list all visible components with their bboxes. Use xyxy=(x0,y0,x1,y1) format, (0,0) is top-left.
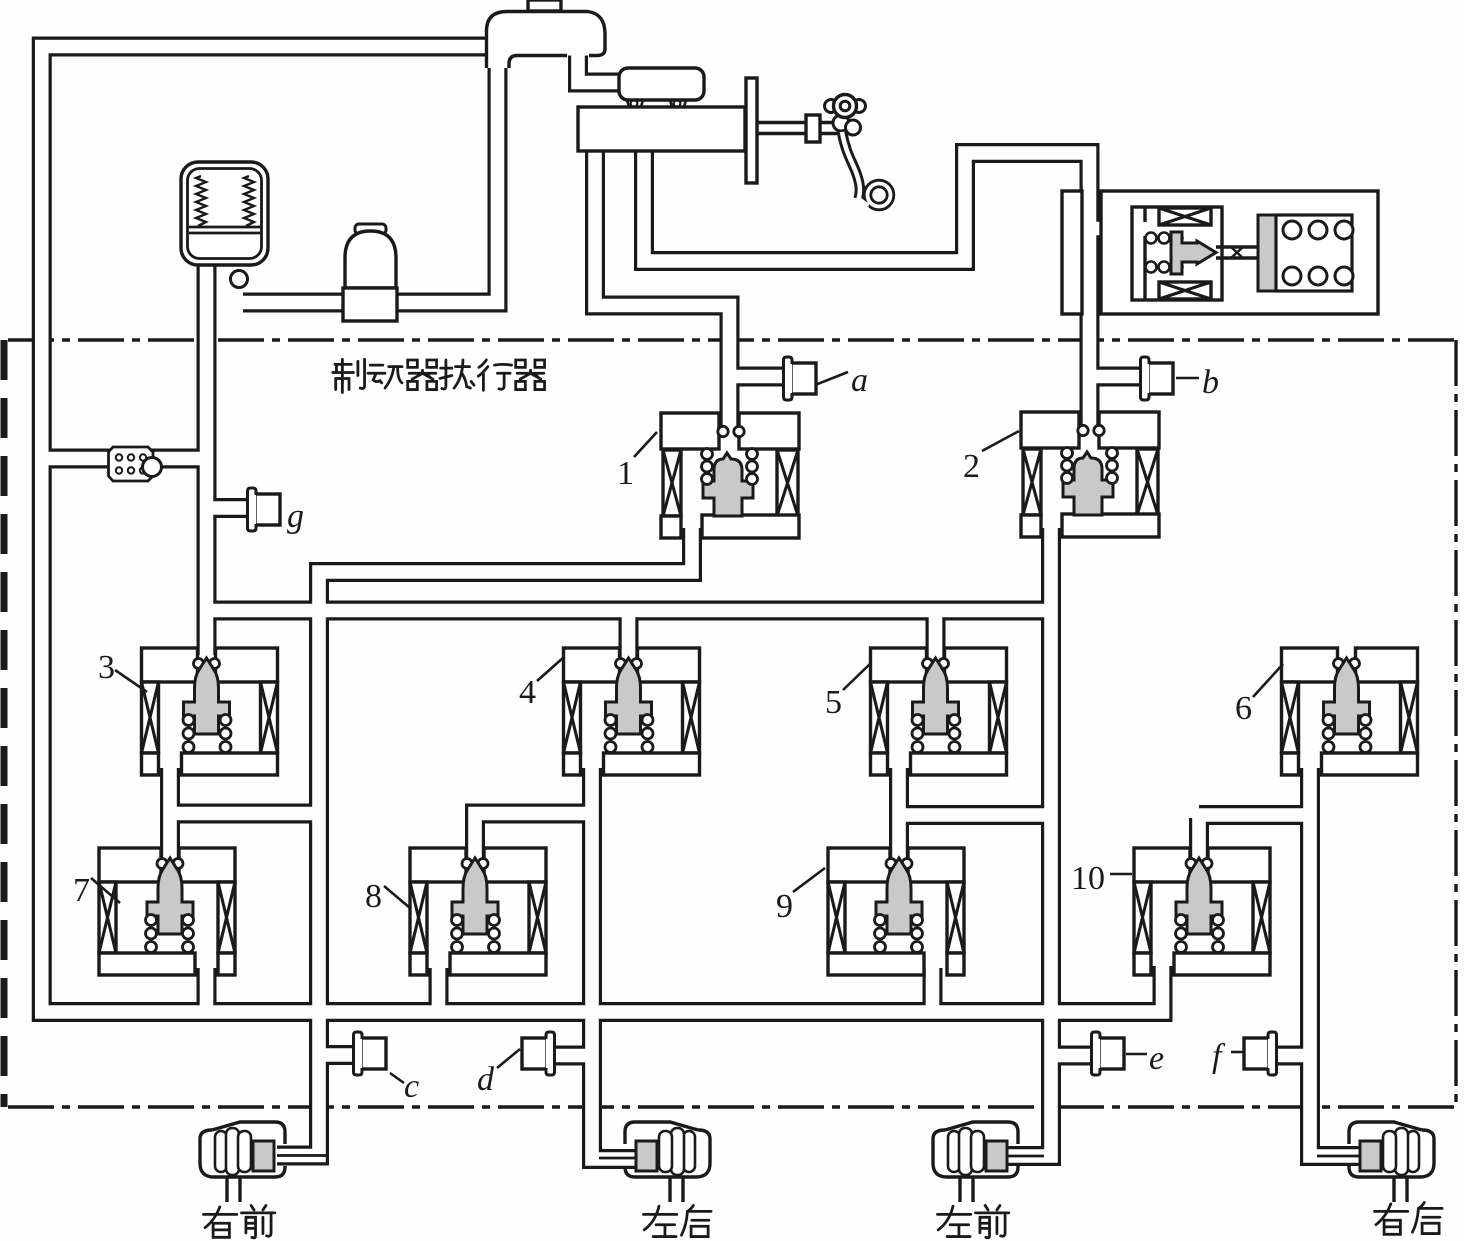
solenoid valve 10 xyxy=(1134,848,1270,975)
pipe: pressure switch line (casing) xyxy=(43,449,206,469)
port f xyxy=(1244,1032,1277,1075)
pipe: port c stub (casing) xyxy=(319,1045,354,1065)
booster piston ports xyxy=(1283,221,1301,239)
svg-text:e: e xyxy=(1149,1040,1164,1077)
booster rod with orifice xyxy=(1216,247,1259,258)
pipe: pump suction line and riser to elbow (casing) xyxy=(243,54,498,303)
pipe: accumulator drop line to valve 3 (casing) xyxy=(197,264,217,655)
filler elbow pipe at top xyxy=(487,12,606,69)
wheel cylinder right-rear 右后 xyxy=(1349,1122,1434,1177)
accumulator piston xyxy=(189,226,261,229)
text: wheel label right-rear xyxy=(1374,1204,1407,1234)
svg-text:9: 9 xyxy=(776,888,793,925)
pipe: valve 6 outlet branch to valve 10 inlet (casing) xyxy=(1199,815,1310,858)
booster solenoid shell xyxy=(1132,207,1222,300)
filler neck cap xyxy=(528,0,561,11)
svg-text:8: 8 xyxy=(365,878,382,915)
accumulator springs xyxy=(196,176,206,226)
svg-text:4: 4 xyxy=(519,674,536,711)
pressure switch xyxy=(109,447,154,481)
pipe: valve 4 outlet down to left-rear wheel (bore) xyxy=(592,768,636,1159)
pipe: reservoir feed from elbow (bore) xyxy=(578,52,623,83)
pipe: valve 9 outlet to return bus (casing) xyxy=(923,968,943,1012)
pipe: port d stub (bore) xyxy=(554,1049,592,1063)
pipe: valve 6 outlet down to right-rear wheel (casing) xyxy=(1310,768,1360,1156)
pipe: distribution bus from accumulator line (casing) xyxy=(207,601,1052,621)
pipe: valve 1 outlet bus down to right-front wheel (casing) xyxy=(277,528,692,1156)
pipe: inlet into booster box solenoid (casing) xyxy=(1090,219,1141,239)
wheel cylinder left-rear piston and bellows xyxy=(636,1128,695,1202)
pipe: branch to valve 5 outlet / valve 9 inlet (bore) xyxy=(899,808,1051,822)
wheel cylinder left-front 左前 xyxy=(933,1122,1018,1177)
solenoid valve 3 xyxy=(142,648,278,775)
svg-text:a: a xyxy=(851,362,868,399)
svg-text:7: 7 xyxy=(73,872,90,909)
pipe: accumulator drop line to valve 3 (bore) xyxy=(200,264,214,655)
pipe: valve 6 outlet branch to valve 10 inlet (bore) xyxy=(1199,815,1310,858)
pipe: valve 5 to valve 9 (bore) xyxy=(892,768,906,858)
pump flange xyxy=(343,288,397,321)
booster connector plate xyxy=(1062,191,1082,314)
pipe: valve 2 outlet down to left-front wheel (casing) xyxy=(1006,528,1051,1156)
svg-text:1: 1 xyxy=(617,455,634,492)
pipe: top return line, left riser and bottom return bus (casing) xyxy=(42,47,1163,1013)
reservoir xyxy=(619,68,704,100)
pipe: valve 4 inlet stub (casing) xyxy=(619,611,639,659)
pipe: port e stub (casing) xyxy=(1051,1046,1094,1066)
pipe: reservoir feed from elbow (casing) xyxy=(578,52,623,83)
svg-text:6: 6 xyxy=(1235,690,1252,727)
pipe: branch to valve 3 outlet / valve 7 inlet (bore) xyxy=(170,807,319,821)
reservoir feet xyxy=(627,100,686,107)
booster plunger xyxy=(1171,232,1216,274)
brake pedal clevis and pivot xyxy=(825,100,838,113)
wheel cylinder right-rear piston and bellows xyxy=(1360,1128,1419,1202)
brake actuator dash-dot enclosure box xyxy=(8,338,1456,341)
pipe: valve 2 outlet down to left-front wheel (bore) xyxy=(1006,528,1051,1156)
booster piston xyxy=(1258,215,1276,291)
pipe: port c stub (bore) xyxy=(319,1048,354,1062)
pipe: port g stub (casing) xyxy=(207,498,251,518)
push rod xyxy=(757,123,807,134)
pipe: port a stub (bore) xyxy=(730,370,787,384)
solenoid valve 9 xyxy=(828,848,964,975)
pipe: inlet into booster box solenoid (bore) xyxy=(1090,222,1141,236)
wheel cylinder left-front piston and bellows xyxy=(948,1128,1007,1202)
svg-text:g: g xyxy=(287,498,304,535)
pipe: valve 8 outlet to return bus (casing) xyxy=(429,968,449,1012)
pump bell xyxy=(345,231,396,288)
pipe: pressure switch line (bore) xyxy=(43,452,206,466)
wheel cylinder right-front 右前 xyxy=(200,1122,285,1177)
solenoid valve 6 xyxy=(1282,648,1418,775)
pipe: port g stub (bore) xyxy=(207,501,251,515)
booster solenoid springs xyxy=(1146,233,1157,244)
brake pedal arm xyxy=(842,132,860,199)
master cylinder body xyxy=(578,107,745,151)
pipe: distribution bus from accumulator line (bore) xyxy=(207,604,1052,618)
text: brake actuator title (zhi dong qi zhi xing qi) xyxy=(333,359,365,392)
svg-text:b: b xyxy=(1202,364,1219,401)
pipe: port b stub (bore) xyxy=(1090,370,1144,384)
pipe: valve 5 inlet stub (bore) xyxy=(929,611,943,659)
pipe: port d stub (casing) xyxy=(554,1046,592,1066)
pipe: pump suction line and riser to elbow (bore) xyxy=(243,54,498,303)
svg-text:3: 3 xyxy=(98,649,115,686)
pipe: branch to valve 3 outlet / valve 7 inlet (casing) xyxy=(170,804,319,824)
text: wheel label left-front xyxy=(937,1206,970,1236)
pipe: valve 3 to valve 7 (bore) xyxy=(163,768,177,858)
booster solenoid coils xyxy=(1159,208,1211,225)
accumulator xyxy=(181,162,268,265)
pipe: valve 7 outlet to return bus (bore) xyxy=(200,968,214,1012)
wheel cylinder left-rear 左后 xyxy=(625,1122,710,1177)
solenoid valve 7 xyxy=(99,848,235,975)
booster box enclosure xyxy=(1101,191,1378,314)
pipe: valve 1 outlet bus down to right-front wheel (bore) xyxy=(277,528,692,1156)
pipe: master cylinder circuit 2 to valve 2 (casing) xyxy=(644,148,1090,434)
pipe: valve 4 inlet stub (bore) xyxy=(622,611,636,659)
pump cap xyxy=(355,224,386,234)
port c xyxy=(354,1032,387,1075)
solenoid valve 1 xyxy=(661,413,799,538)
pipe: port f stub (casing) xyxy=(1274,1046,1310,1066)
pipe: valve 4 outlet branch to valve 8 inlet (bore) xyxy=(475,814,592,859)
pipe: valve 6 outlet down to right-rear wheel (bore) xyxy=(1310,768,1360,1156)
solenoid valve 5 xyxy=(871,648,1007,775)
pipe: port f stub (bore) xyxy=(1274,1049,1310,1063)
accumulator outlet ball xyxy=(231,271,248,288)
port b xyxy=(1141,357,1174,400)
pipe: port e stub (bore) xyxy=(1051,1049,1094,1063)
port a xyxy=(784,357,817,400)
pipe: valve 4 outlet down to left-rear wheel (casing) xyxy=(592,768,636,1159)
svg-text:10: 10 xyxy=(1071,860,1105,897)
pipe: valve 5 to valve 9 (casing) xyxy=(889,768,909,858)
pipe: valve 4 outlet branch to valve 8 inlet (casing) xyxy=(475,814,592,859)
pipe: port b stub (casing) xyxy=(1090,367,1144,387)
port g xyxy=(248,488,281,531)
wheel cylinder right-front piston and bellows xyxy=(215,1128,274,1202)
pipe: branch to valve 5 outlet / valve 9 inlet (casing) xyxy=(899,805,1051,825)
pipe: top return line, left riser and bottom return bus (bore) xyxy=(42,47,1163,1013)
svg-text:d: d xyxy=(477,1061,495,1098)
svg-text:c: c xyxy=(404,1068,419,1105)
pipe: master cylinder circuit 1 to valve 1 (bore) xyxy=(595,148,730,434)
text: wheel label left-rear xyxy=(643,1206,676,1236)
wheel cylinder stub divider lines xyxy=(277,1154,327,1157)
port e xyxy=(1092,1032,1125,1075)
push rod nut xyxy=(806,115,820,142)
pipe: master cylinder circuit 2 to valve 2 (bore) xyxy=(644,148,1090,434)
text: wheel label right-front xyxy=(203,1207,236,1237)
solenoid valve 4 xyxy=(564,648,700,775)
brake pedal pad xyxy=(868,184,891,207)
master cylinder end plate xyxy=(746,78,757,183)
solenoid valve 8 xyxy=(410,848,546,975)
leader lines for numbered labels xyxy=(634,432,657,457)
svg-text:5: 5 xyxy=(825,684,842,721)
pipe: valve 9 outlet to return bus (bore) xyxy=(926,968,940,1012)
pipe: valve 3 to valve 7 (casing) xyxy=(160,768,180,858)
solenoid valve 2 xyxy=(1021,412,1159,537)
port d xyxy=(522,1032,555,1075)
pipe: valve 8 outlet to return bus (bore) xyxy=(432,968,446,1012)
pipe: master cylinder circuit 1 to valve 1 (casing) xyxy=(595,148,730,434)
svg-text:2: 2 xyxy=(963,448,980,485)
pipe: valve 7 outlet to return bus (casing) xyxy=(197,968,217,1012)
pipe: valve 5 inlet stub (casing) xyxy=(926,611,946,659)
pipe: port a stub (casing) xyxy=(730,367,787,387)
